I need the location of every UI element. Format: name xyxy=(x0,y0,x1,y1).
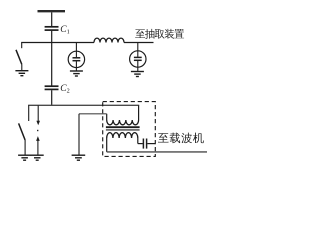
ground (below S1) xyxy=(15,71,28,76)
coupling capacitor device 2 (circle with capacitor) xyxy=(130,51,146,67)
wire: drop down to ground 3 xyxy=(78,114,80,155)
transformer T1 primary winding xyxy=(107,120,139,125)
ground (below device 1) xyxy=(70,71,83,76)
wire: junction drop to coupling device 2 xyxy=(137,43,139,51)
ground (transformer primary) xyxy=(72,155,86,160)
dashed box (coupling filter unit) xyxy=(103,102,156,157)
ground (below spark gap) xyxy=(31,155,44,160)
svg-text:1: 1 xyxy=(67,28,70,35)
wire: device 2 to ground xyxy=(137,67,139,71)
wire: primary left end up xyxy=(106,114,108,120)
busbar (top) xyxy=(38,10,66,12)
spark gap lower electrode xyxy=(36,136,40,141)
capacitor (series, to carrier set) xyxy=(142,139,144,149)
transformer T1 secondary winding xyxy=(107,133,138,138)
switch S2 (earthing switch, bottom-left) xyxy=(28,105,30,121)
wire: device 1 to ground xyxy=(75,68,77,71)
wire: capacitor to box edge xyxy=(147,143,155,145)
wire: junction drop to coupling device 1 xyxy=(75,43,77,52)
wire: to coupling capacitor xyxy=(138,143,143,145)
wire: top horizontal line (left part) xyxy=(21,42,94,44)
wire: C1 down to C2 (main vertical) xyxy=(51,31,53,86)
wire: secondary return line to right edge xyxy=(107,151,207,153)
capacitor C2 xyxy=(45,85,59,87)
ground (below S2) xyxy=(18,155,31,160)
label: to carrier machine xyxy=(158,133,169,142)
label: to extraction device xyxy=(135,29,145,38)
transformer core xyxy=(106,126,140,128)
capacitor C1 xyxy=(45,26,59,28)
wire: primary left lead to ground drop xyxy=(79,113,107,115)
wire: top horizontal line (right part) xyxy=(124,42,154,44)
wire: secondary right end down xyxy=(137,138,139,144)
spark gap (protective gap) upper electrode xyxy=(37,105,39,121)
svg-text:2: 2 xyxy=(67,88,70,95)
switch S1 (earthing switch, top-left) xyxy=(21,43,23,49)
coupling capacitor device 1 (circle with capacitor) xyxy=(68,51,84,67)
wire: secondary left end down xyxy=(106,138,108,152)
inductor L1 (line trap) xyxy=(94,38,124,42)
ground (below device 2) xyxy=(131,72,144,77)
lower bus wire xyxy=(28,104,139,106)
spark gap dot xyxy=(37,130,38,131)
wire: bus corner down to transformer primary right end xyxy=(138,105,140,120)
wire: C2 down to lower bus xyxy=(51,90,53,105)
wire: busbar to C1 xyxy=(51,12,53,26)
